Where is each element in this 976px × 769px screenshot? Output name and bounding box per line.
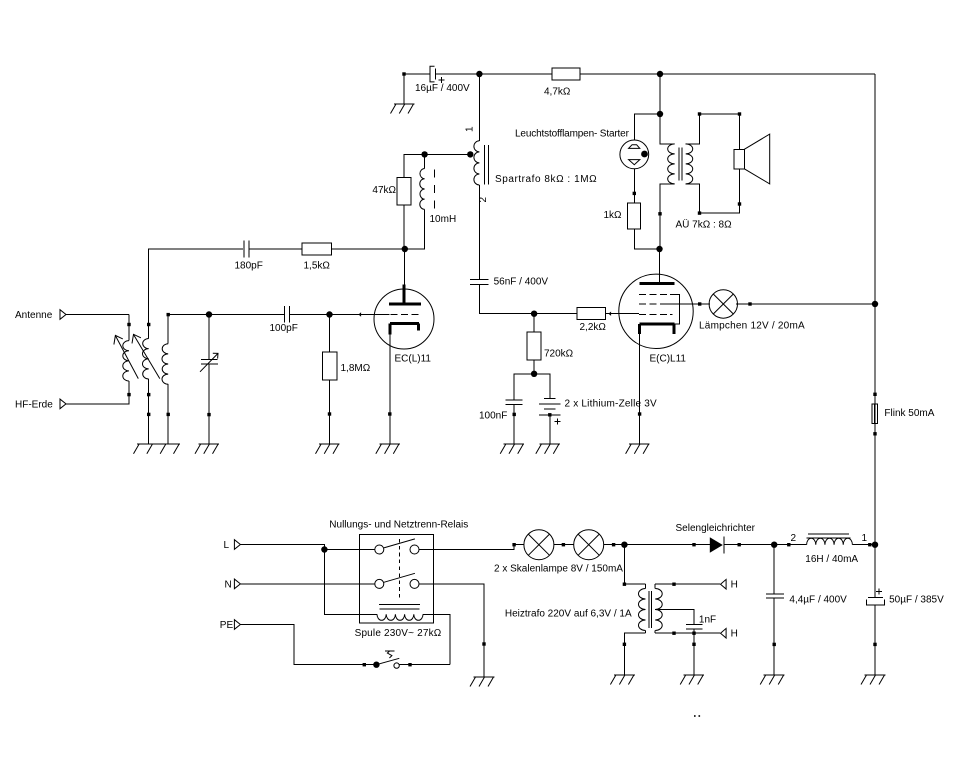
wire bbox=[633, 169, 636, 203]
wire bbox=[660, 114, 675, 144]
wire bbox=[290, 314, 330, 316]
capacitor C 1nF bbox=[686, 614, 716, 629]
svg-text:180pF: 180pF bbox=[235, 261, 263, 272]
node bbox=[621, 542, 627, 548]
capacitor C 100nF bbox=[479, 400, 523, 422]
wire bbox=[736, 302, 875, 305]
wire screen-grid to lamp bbox=[693, 302, 710, 305]
tube V1 EC(L)11 triode bbox=[374, 284, 434, 364]
svg-text:N: N bbox=[225, 580, 232, 591]
wire bbox=[403, 205, 405, 249]
wire bbox=[478, 185, 480, 279]
capacitor C 180pF bbox=[235, 241, 263, 272]
wire center tap bbox=[655, 610, 694, 625]
svg-text:1,8MΩ: 1,8MΩ bbox=[341, 363, 371, 374]
node bbox=[321, 546, 327, 552]
wire bbox=[624, 583, 645, 585]
wire bbox=[604, 543, 625, 546]
artifact dots bbox=[694, 715, 700, 717]
inductor L3 input coil bbox=[162, 313, 170, 444]
svg-text:1kΩ: 1kΩ bbox=[603, 210, 622, 221]
wire cathode bbox=[388, 334, 391, 444]
wire bbox=[514, 374, 534, 400]
node bbox=[531, 371, 537, 377]
wire bbox=[147, 395, 150, 445]
ground bbox=[376, 444, 400, 454]
wire right rail bbox=[874, 74, 876, 304]
inductor L 16H/40mA choke bbox=[805, 533, 867, 565]
wire bbox=[852, 543, 875, 546]
node bbox=[872, 301, 878, 307]
ground bbox=[316, 444, 340, 454]
svg-text:Antenne: Antenne bbox=[15, 310, 53, 321]
svg-text:HF-Erde: HF-Erde bbox=[15, 400, 53, 411]
wire bbox=[419, 543, 524, 550]
wire bbox=[623, 545, 626, 586]
svg-text:Selengleichrichter: Selengleichrichter bbox=[676, 523, 756, 534]
wire bbox=[549, 415, 551, 444]
relay K1 Nullungs- und Netztrenn-Relais bbox=[329, 520, 468, 640]
ground bbox=[500, 444, 524, 454]
node bbox=[771, 542, 777, 548]
wire bbox=[249, 248, 302, 250]
lamp Skalenlampe 2 bbox=[494, 530, 623, 575]
node bbox=[421, 151, 427, 157]
svg-text:1: 1 bbox=[465, 126, 476, 132]
lamp Lämpchen 12V/20mA bbox=[699, 290, 805, 332]
svg-text:Leuchtstofflampen- Starter: Leuchtstofflampen- Starter bbox=[515, 129, 630, 140]
ground bbox=[470, 677, 495, 687]
svg-text:16µF / 400V: 16µF / 400V bbox=[415, 83, 470, 94]
transformer T3 Heiztrafo 220V auf 6,3V/1A bbox=[505, 584, 662, 633]
resistor R 1,5kΩ bbox=[302, 243, 332, 272]
ground bbox=[760, 675, 785, 685]
node bbox=[402, 246, 408, 252]
ground bbox=[861, 675, 886, 685]
lamp Skalenlampe 1 bbox=[524, 530, 554, 560]
wire bbox=[634, 114, 660, 140]
ground bbox=[536, 444, 560, 454]
resistor R 720kΩ bbox=[527, 314, 573, 374]
wire bbox=[404, 73, 430, 75]
wire bbox=[332, 248, 405, 250]
svg-text:Heiztrafo 220V auf 6,3V / 1A: Heiztrafo 220V auf 6,3V / 1A bbox=[505, 609, 632, 620]
svg-text:4,7kΩ: 4,7kΩ bbox=[544, 87, 571, 98]
terminal HF-Erde bbox=[15, 399, 66, 410]
wire secondary bottom bbox=[655, 632, 720, 635]
svg-text:10mH: 10mH bbox=[430, 214, 457, 225]
svg-text:720kΩ: 720kΩ bbox=[544, 349, 574, 360]
speaker LS bbox=[734, 134, 770, 184]
node bbox=[326, 311, 332, 317]
svg-text:56nF / 400V: 56nF / 400V bbox=[494, 277, 549, 288]
diode D Selengleichrichter bbox=[676, 523, 756, 554]
wire bbox=[660, 73, 875, 75]
svg-text:2: 2 bbox=[791, 533, 797, 544]
svg-text:EC(L)11: EC(L)11 bbox=[395, 354, 432, 365]
wire bbox=[554, 543, 574, 546]
switch S1 mains switch bbox=[373, 651, 399, 669]
inductor L2 input coil (adjustable) bbox=[132, 323, 160, 397]
battery BT 2× Lithium-Zelle 3V bbox=[539, 399, 657, 425]
resistor R 1kΩ bbox=[603, 203, 640, 229]
wire bbox=[693, 629, 695, 633]
tube V2 E(C)L11 pentode bbox=[619, 274, 693, 364]
wire bbox=[534, 313, 577, 315]
wire bbox=[873, 432, 876, 545]
wire bbox=[724, 543, 774, 546]
svg-text:Nullungs- und Netztrenn-Relais: Nullungs- und Netztrenn-Relais bbox=[329, 520, 468, 531]
capacitor C 56nF/400V bbox=[470, 277, 548, 288]
terminal Antenne bbox=[15, 310, 66, 321]
svg-text:H: H bbox=[731, 580, 738, 591]
transformer T1 Spartrafo 8kΩ:1MΩ bbox=[465, 126, 598, 203]
capacitor C 4,4µF/400V bbox=[766, 545, 847, 675]
svg-text:Lämpchen 12V / 20mA: Lämpchen 12V / 20mA bbox=[699, 321, 805, 332]
wire cathode bbox=[638, 334, 641, 444]
node B+ rail bbox=[476, 71, 482, 77]
node bbox=[657, 111, 663, 117]
wire bbox=[659, 74, 661, 114]
capacitor C trimmer (variable) bbox=[200, 315, 218, 445]
ground bbox=[680, 675, 704, 685]
svg-text:2,2kΩ: 2,2kΩ bbox=[580, 322, 607, 333]
wire anode EC(L)11 bbox=[404, 249, 406, 284]
wire bbox=[405, 209, 425, 249]
wire bbox=[479, 73, 552, 75]
svg-text:Flink 50mA: Flink 50mA bbox=[884, 408, 934, 419]
wire bbox=[658, 184, 674, 249]
wire relay coil right bbox=[423, 614, 450, 664]
wire relay coil left bbox=[324, 550, 377, 615]
wire bbox=[479, 285, 534, 314]
wire grid1 E(C)L11 bbox=[606, 312, 640, 316]
wire anode bbox=[659, 249, 661, 284]
inductor L1 antenna coil (adjustable) bbox=[114, 315, 138, 397]
wire bbox=[478, 74, 480, 141]
wire bbox=[634, 229, 659, 249]
resistor R 4,7kΩ bbox=[544, 68, 580, 98]
svg-text:2 x Skalenlampe 8V / 150mA: 2 x Skalenlampe 8V / 150mA bbox=[494, 564, 623, 575]
svg-text:Spartrafo 8kΩ : 1MΩ: Spartrafo 8kΩ : 1MΩ bbox=[495, 174, 597, 185]
svg-text:2 x Lithium-Zelle 3V: 2 x Lithium-Zelle 3V bbox=[565, 399, 657, 410]
svg-text:AÜ 7kΩ : 8Ω: AÜ 7kΩ : 8Ω bbox=[676, 219, 733, 231]
ground bbox=[195, 444, 219, 454]
wire bbox=[324, 549, 374, 551]
svg-text:1nF: 1nF bbox=[699, 614, 716, 625]
wire bbox=[686, 112, 742, 149]
wire bbox=[419, 584, 486, 677]
node bbox=[656, 246, 662, 252]
terminal H bbox=[721, 579, 738, 590]
inductor L 10mH bbox=[420, 154, 456, 225]
wire bbox=[240, 625, 376, 667]
transformer T2 AÜ 7kΩ:8Ω bbox=[668, 144, 732, 231]
wire bbox=[66, 395, 129, 404]
svg-text:PE: PE bbox=[220, 620, 234, 631]
terminal N bbox=[225, 579, 241, 590]
terminal H bbox=[721, 628, 738, 639]
wire bbox=[240, 583, 374, 585]
svg-text:1: 1 bbox=[862, 533, 868, 544]
node bbox=[206, 311, 212, 317]
svg-text:Spule 230V~ 27kΩ: Spule 230V~ 27kΩ bbox=[355, 628, 442, 639]
svg-text:16H / 40mA: 16H / 40mA bbox=[805, 554, 858, 565]
node bbox=[657, 71, 663, 77]
wire bbox=[624, 543, 709, 546]
wire bbox=[774, 533, 806, 547]
ground bbox=[391, 72, 415, 113]
ground bbox=[626, 444, 650, 454]
wire bbox=[513, 404, 516, 444]
wire bbox=[404, 154, 470, 177]
wire bbox=[873, 304, 876, 434]
svg-text:100nF: 100nF bbox=[479, 411, 507, 422]
svg-text:H: H bbox=[731, 629, 738, 640]
svg-text:4,4µF / 400V: 4,4µF / 400V bbox=[789, 595, 847, 606]
wire grid EC(L)11 bbox=[330, 312, 390, 316]
ground bbox=[134, 444, 181, 454]
wire bbox=[692, 633, 695, 675]
capacitor C 50µF/385V (electrolytic) bbox=[866, 545, 944, 675]
terminal L bbox=[224, 540, 241, 551]
svg-text:50µF / 385V: 50µF / 385V bbox=[889, 595, 944, 606]
wire bbox=[580, 73, 660, 75]
wire secondary top bbox=[655, 583, 720, 586]
resistor R 1,8MΩ bbox=[323, 315, 371, 445]
capacitor C 16µF/400V (electrolytic) bbox=[415, 66, 470, 94]
wire bbox=[623, 633, 646, 675]
wire bbox=[209, 314, 284, 316]
svg-text:100pF: 100pF bbox=[270, 323, 298, 334]
terminal PE bbox=[220, 620, 241, 631]
node tap bbox=[467, 151, 473, 157]
wire bbox=[66, 314, 129, 316]
svg-text:E(C)L11: E(C)L11 bbox=[650, 354, 687, 365]
wire bbox=[400, 663, 451, 666]
wire bbox=[168, 314, 209, 316]
starter Leuchtstofflampen-Starter (glow starter) bbox=[515, 129, 649, 169]
node bbox=[872, 542, 878, 548]
wire bbox=[534, 374, 550, 399]
resistor R 47kΩ bbox=[372, 177, 411, 205]
svg-text:1,5kΩ: 1,5kΩ bbox=[304, 261, 331, 272]
ground bbox=[610, 675, 635, 685]
wire bbox=[149, 249, 243, 325]
wire bbox=[436, 73, 480, 75]
fuse F Flink 50mA bbox=[872, 404, 935, 424]
node bbox=[531, 311, 537, 317]
capacitor C 100pF bbox=[270, 306, 298, 334]
svg-text:47kΩ: 47kΩ bbox=[372, 185, 396, 196]
resistor R 2,2kΩ bbox=[577, 308, 606, 333]
svg-text:L: L bbox=[224, 540, 230, 551]
wire bbox=[240, 545, 324, 550]
wire bbox=[686, 169, 742, 215]
